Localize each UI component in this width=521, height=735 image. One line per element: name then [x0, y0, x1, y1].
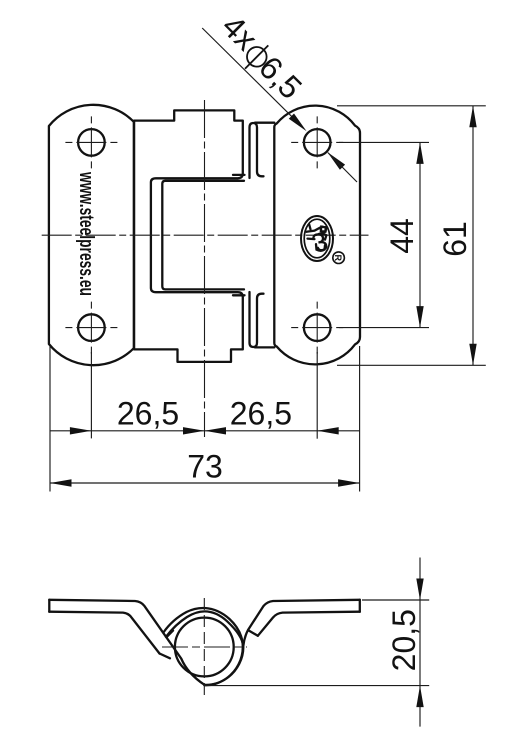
left leaf plate: [49, 105, 134, 365]
wrap sheet inner spiral: [166, 611, 243, 684]
extension line barrel bottom: [205, 685, 429, 687]
leader line 4x dia6,5 upper segment: [202, 28, 303, 128]
barrel centerline vertical: [203, 598, 205, 700]
registered mark: [333, 252, 345, 264]
extension line bottom hole: [339, 327, 429, 329]
logo ellipse inner: [304, 219, 330, 258]
left plate top edge: [49, 600, 204, 685]
leaf/knuckle boundary line: [133, 121, 135, 349]
extension line left hole: [90, 352, 92, 438]
left sheet end tick lower: [160, 654, 171, 659]
wrap sheet outer spiral: [163, 608, 243, 685]
hole bottom-left: [78, 314, 105, 341]
svg-text:26,5: 26,5: [117, 396, 179, 432]
dim line 20,5: [419, 558, 421, 727]
wire: [255, 122, 274, 124]
right plate end cap: [359, 600, 361, 612]
extension line top edge: [337, 105, 486, 107]
barrel centerline horizontal: [162, 646, 247, 648]
svg-text:44: 44: [384, 218, 420, 254]
sheet edge tick top: [233, 174, 245, 176]
centerline horizontal: [42, 234, 369, 236]
wire: [255, 346, 274, 348]
logo monogram squiggle: [307, 225, 327, 251]
svg-text:R: R: [333, 254, 343, 261]
wrapped sheet hairpin top: [250, 123, 264, 178]
svg-text:73: 73: [187, 449, 223, 485]
cutout inner sheet line: [162, 181, 244, 290]
dim line 73: [50, 482, 360, 484]
centerline vertical (pin axis): [204, 100, 206, 437]
extension line top hole: [339, 141, 429, 143]
right plate top edge: [243, 600, 359, 646]
left plate end cap: [48, 600, 50, 612]
dim line 61: [472, 106, 474, 366]
diameter symbol: [247, 47, 267, 67]
extension line right edge: [359, 346, 361, 492]
right leaf plate: [274, 106, 360, 365]
arrow at right hole: [317, 427, 339, 434]
svg-text:www.steelpress.eu: www.steelpress.eu: [75, 171, 98, 296]
dim line 26,5 pair: [50, 430, 360, 432]
svg-text:61: 61: [437, 221, 473, 257]
sheet edge tick bottom: [233, 294, 245, 296]
hole bottom-right: [304, 314, 331, 341]
center knuckle block with pin tabs and C cutout: [134, 110, 243, 362]
right sheet end tick: [248, 630, 257, 636]
arrow at left hole: [70, 427, 92, 434]
svg-text:20,5: 20,5: [386, 609, 422, 671]
hole top-right: [304, 129, 331, 156]
dim line 44: [419, 142, 421, 327]
extension line bottom edge: [337, 364, 486, 366]
svg-text:26,5: 26,5: [230, 396, 292, 432]
right plate bottom edge: [258, 612, 360, 636]
arrows at center: [183, 427, 205, 434]
left sheet end tick upper: [167, 631, 173, 637]
hole top-left: [78, 129, 105, 156]
extension line left edge: [49, 346, 51, 492]
barrel inner circle (pin): [175, 618, 234, 677]
wrapped sheet hairpin bottom: [250, 292, 264, 347]
leader line lower segment: [328, 153, 357, 182]
leader arrow lower: [327, 152, 345, 170]
leader arrow upper: [289, 114, 307, 132]
extension line right hole: [316, 352, 318, 439]
left plate bottom edge: [49, 612, 159, 654]
extension line top plate: [362, 599, 429, 601]
logo ellipse outer: [301, 216, 333, 261]
